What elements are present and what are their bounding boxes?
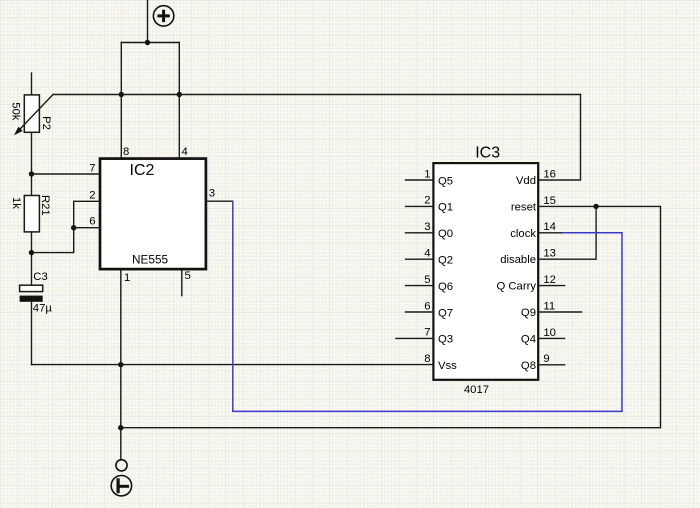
wire reset-disable tie <box>538 206 596 259</box>
svg-text:Q4: Q4 <box>521 333 536 345</box>
IC3 pin2 stub <box>406 205 434 207</box>
svg-text:Vss: Vss <box>438 360 457 372</box>
wire reset return loop <box>121 206 661 427</box>
svg-text:5: 5 <box>424 274 430 286</box>
svg-text:Q1: Q1 <box>438 202 453 214</box>
svg-text:4: 4 <box>182 146 188 158</box>
svg-text:Q8: Q8 <box>521 360 536 372</box>
wire Vdd drop to IC3 pin16 <box>538 95 581 181</box>
IC3 pin11 stub <box>538 311 582 313</box>
svg-text:3: 3 <box>209 188 215 200</box>
wire clock blue <box>233 202 622 412</box>
capacitor C3 plate top <box>20 285 43 291</box>
svg-text:P2: P2 <box>40 116 52 130</box>
svg-text:NE555: NE555 <box>132 252 169 266</box>
svg-text:1k: 1k <box>10 197 22 209</box>
wire pot top lead <box>31 73 33 96</box>
wire V+ rail y94.5 <box>53 94 581 96</box>
node return junction <box>118 425 123 430</box>
IC3 pin4 stub <box>406 258 434 260</box>
svg-text:8: 8 <box>123 146 129 158</box>
svg-text:12: 12 <box>543 274 556 286</box>
node V+ right <box>177 92 182 97</box>
IC3 pin6 stub <box>406 311 434 313</box>
potentiometer P2 wiper arrow <box>14 95 53 136</box>
wire C3 to ground rail <box>31 302 33 365</box>
svg-text:47µ: 47µ <box>33 303 53 315</box>
wire to IC2 pin2 <box>32 201 99 252</box>
node ground rail junction <box>118 362 123 367</box>
wire ground drop to terminal <box>120 365 122 460</box>
svg-text:50k: 50k <box>10 102 22 121</box>
potentiometer P2 body <box>24 95 39 132</box>
open terminal pad <box>116 460 127 471</box>
wire IC2 pin1 to ground rail <box>120 270 122 364</box>
svg-text:4: 4 <box>424 248 430 260</box>
node R21/C3 junction <box>29 250 34 255</box>
svg-text:16: 16 <box>543 168 556 180</box>
svg-text:IC2: IC2 <box>130 162 155 179</box>
svg-text:Q3: Q3 <box>438 334 453 346</box>
wire to IC2 pin6 <box>74 227 99 229</box>
svg-text:2: 2 <box>89 190 95 202</box>
power terminal + (battery plus) <box>153 6 173 26</box>
svg-text:C3: C3 <box>33 271 47 283</box>
node pot/pin7 junction <box>29 171 34 176</box>
wire R21 to C3 <box>31 232 33 285</box>
wire IC2 pin3 stub <box>206 200 233 202</box>
svg-text:Q Carry: Q Carry <box>496 281 536 293</box>
svg-text:9: 9 <box>543 353 549 365</box>
svg-text:clock: clock <box>510 228 536 240</box>
svg-text:Q2: Q2 <box>438 255 453 267</box>
wire IC3 pin14 stub <box>538 232 563 234</box>
svg-text:disable: disable <box>500 254 536 266</box>
power terminal minus (battery minus) <box>111 476 131 496</box>
node top feed junction <box>145 40 150 45</box>
wire top rail y42.5 <box>121 42 179 44</box>
resistor R21 <box>24 196 39 232</box>
svg-text:4017: 4017 <box>464 384 489 396</box>
svg-text:8: 8 <box>424 353 430 365</box>
svg-text:reset: reset <box>511 201 537 213</box>
wire pin4 drop <box>178 43 180 158</box>
svg-text:IC3: IC3 <box>475 144 500 161</box>
svg-text:7: 7 <box>89 163 95 175</box>
svg-text:2: 2 <box>424 195 430 207</box>
svg-text:6: 6 <box>424 300 430 312</box>
svg-text:Q9: Q9 <box>521 307 536 319</box>
IC2 body <box>100 159 206 270</box>
IC3 pin7 stub <box>396 337 433 339</box>
svg-text:11: 11 <box>543 300 555 312</box>
node reset junction <box>593 204 598 209</box>
svg-text:Vdd: Vdd <box>516 175 536 187</box>
wire pin8 drop <box>120 43 122 158</box>
svg-text:5: 5 <box>185 270 191 282</box>
svg-text:R21: R21 <box>39 195 51 216</box>
svg-text:1: 1 <box>124 272 130 284</box>
wire pot to R21 <box>31 132 33 195</box>
svg-text:1: 1 <box>424 168 430 180</box>
svg-text:Q0: Q0 <box>438 228 453 240</box>
svg-text:6: 6 <box>89 216 95 228</box>
svg-text:10: 10 <box>543 327 556 339</box>
wire top supply feed <box>147 0 149 43</box>
node pin2/pin6 tie <box>71 225 76 230</box>
svg-text:14: 14 <box>543 221 556 233</box>
IC3 pin1 stub <box>406 179 434 181</box>
svg-text:Q6: Q6 <box>438 281 453 293</box>
svg-text:3: 3 <box>424 221 430 233</box>
svg-text:13: 13 <box>543 248 556 260</box>
wire IC2 pin5 stub <box>181 270 183 295</box>
IC3 body <box>433 163 538 380</box>
node V+ left <box>119 92 124 97</box>
wire to IC2 pin7 <box>32 173 99 175</box>
IC3 pin5 stub <box>406 285 434 287</box>
svg-text:Q5: Q5 <box>438 175 453 187</box>
IC3 pin12 stub <box>538 285 565 287</box>
IC3 pin10 stub <box>538 337 565 339</box>
IC3 pin9 stub <box>538 364 565 366</box>
IC3 pin3 stub <box>406 232 434 234</box>
svg-text:15: 15 <box>543 195 556 207</box>
wire ground rail to IC3 Vss <box>32 364 433 366</box>
svg-text:7: 7 <box>424 327 430 339</box>
svg-text:Q7: Q7 <box>438 307 453 319</box>
capacitor C3 plate bottom <box>20 296 43 302</box>
